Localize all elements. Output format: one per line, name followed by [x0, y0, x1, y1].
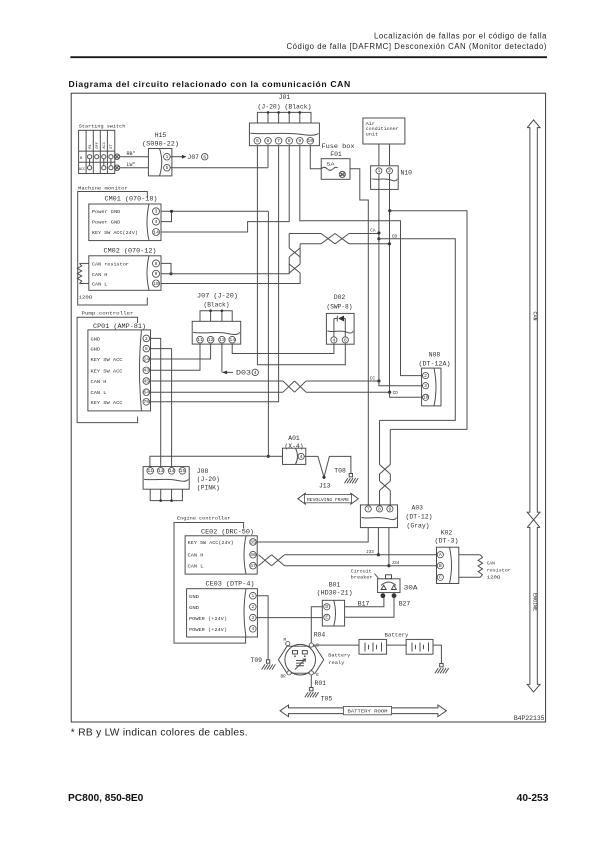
wire CM02 CAN L to twisted pair: [161, 273, 300, 284]
junction CM01 GND: [170, 210, 173, 213]
node CA: [377, 231, 380, 234]
svg-text:T09: T09: [250, 657, 262, 664]
svg-text:CAN L: CAN L: [92, 282, 108, 288]
svg-text:B4P22135: B4P22135: [514, 715, 545, 722]
svg-text:Localización de fallas por el: Localización de fallas por el código de …: [374, 32, 547, 41]
svg-text:B01: B01: [329, 582, 341, 589]
svg-text:Battery: Battery: [385, 632, 409, 638]
battery ground: [440, 664, 443, 667]
svg-text:14: 14: [229, 337, 235, 343]
node J33: [377, 553, 380, 556]
connector J08 (J-20)(PINK): [143, 467, 189, 490]
svg-text:CD: CD: [393, 391, 399, 396]
svg-text:CAN L: CAN L: [188, 564, 204, 570]
svg-text:Battery: Battery: [328, 654, 350, 659]
terminal B17: [381, 593, 386, 598]
svg-text:CP01 (AMP-81): CP01 (AMP-81): [93, 323, 146, 330]
svg-text:CE02 (DRC-50): CE02 (DRC-50): [201, 529, 254, 536]
svg-text:R1: R1: [89, 143, 93, 148]
svg-text:(X-4): (X-4): [285, 443, 304, 450]
wire B01 pin D to B17: [345, 596, 384, 607]
svg-text:10: 10: [423, 395, 429, 401]
svg-text:5: 5: [145, 346, 148, 352]
svg-text:Diagrama del circuito relacion: Diagrama del circuito relacionado con la…: [69, 79, 351, 89]
svg-text:(DT-3): (DT-3): [435, 538, 459, 545]
svg-text:B17: B17: [358, 600, 370, 607]
svg-text:7: 7: [367, 506, 370, 512]
node J34: [387, 564, 390, 567]
svg-text:REVOLVING FRAME: REVOLVING FRAME: [307, 498, 349, 503]
svg-text:CC: CC: [370, 377, 376, 382]
svg-text:43: 43: [143, 368, 149, 374]
battery relay R04: [278, 646, 323, 673]
svg-text:Starting switch: Starting switch: [79, 123, 126, 129]
svg-text:8: 8: [288, 138, 291, 144]
svg-text:RB*: RB*: [127, 151, 136, 157]
fuse terminal 20: [339, 171, 345, 177]
svg-text:PC800, 850-8E0: PC800, 850-8E0: [68, 793, 144, 804]
svg-text:N10: N10: [401, 170, 413, 177]
svg-text:5A: 5A: [327, 163, 336, 168]
wire AC unit to N10 pin2: [389, 144, 391, 166]
wire CE03 pin1 to ground T09: [256, 596, 268, 660]
wire H15 pin5 to J01 pin6: [170, 167, 268, 169]
svg-text:(J-20) (Black): (J-20) (Black): [258, 104, 312, 111]
wire CP01 pin5 GND to J08 pin14: [151, 349, 172, 468]
wire J34 to K02 pin B: [389, 565, 437, 567]
svg-text:24: 24: [143, 356, 149, 362]
wire battery relay E to ground T05: [310, 675, 312, 688]
svg-text:(HD30-21): (HD30-21): [317, 590, 353, 597]
svg-text:KEY SW ACC(24V): KEY SW ACC(24V): [188, 540, 234, 546]
svg-text:(PINK): (PINK): [197, 485, 220, 492]
diagram frame: [71, 93, 545, 722]
wire CAN L branch to engine side: [390, 211, 467, 430]
svg-text:B: B: [80, 157, 83, 161]
svg-text:POWER (+24V): POWER (+24V): [189, 616, 227, 622]
twisted pair pump controller: [283, 381, 295, 392]
svg-text:35: 35: [250, 539, 256, 545]
svg-text:CAN: CAN: [532, 311, 538, 320]
svg-text:GND: GND: [91, 347, 101, 353]
wire monitor GND trunk down to A01: [267, 211, 269, 456]
svg-text:5: 5: [165, 165, 168, 171]
starting switch contact bars: [89, 159, 91, 166]
wire LW to H15 pin5: [120, 167, 149, 169]
svg-text:K02: K02: [441, 530, 453, 537]
svg-text:R01: R01: [315, 680, 327, 687]
svg-text:64: 64: [143, 390, 149, 396]
CAN resistor 120ohm of monitor: [80, 262, 89, 264]
svg-text:M: M: [284, 638, 287, 643]
wire CP01 CAN L to node CD: [151, 391, 284, 393]
svg-text:40-253: 40-253: [517, 793, 549, 804]
svg-text:A01: A01: [288, 435, 300, 442]
J07 harness bracket: [200, 311, 232, 322]
wire A03 pin9 CAN L to node J34: [388, 528, 390, 566]
fuse box F01: [321, 159, 350, 180]
svg-text:GND: GND: [189, 605, 199, 611]
CAN arrow: [527, 120, 540, 528]
battery room arrow: [280, 705, 446, 717]
battery 2: [406, 639, 433, 654]
svg-text:2: 2: [388, 168, 391, 174]
svg-text:LW*: LW*: [127, 162, 136, 168]
wire fuse output to ACC trunk: [350, 169, 368, 505]
svg-text:J33: J33: [366, 550, 374, 555]
wire GND junction to A01: [268, 455, 282, 457]
svg-text:6: 6: [344, 337, 347, 343]
svg-text:47: 47: [250, 563, 256, 569]
wire CM01 pin14 to J01 pin8: [161, 146, 289, 232]
svg-text:CA: CA: [370, 228, 376, 233]
svg-text:realy: realy: [328, 661, 344, 666]
svg-text:Machine monitor: Machine monitor: [78, 186, 128, 192]
svg-text:(Gray): (Gray): [407, 523, 430, 530]
svg-text:H15: H15: [155, 132, 167, 139]
svg-text:ACC: ACC: [103, 141, 107, 149]
svg-text:POWER (+24V): POWER (+24V): [189, 627, 227, 633]
svg-text:J07 (J-20): J07 (J-20): [197, 292, 238, 299]
svg-text:GND: GND: [189, 594, 199, 600]
svg-text:BR: BR: [281, 675, 287, 680]
svg-text:OFF: OFF: [96, 141, 100, 149]
svg-text:9: 9: [155, 271, 158, 277]
svg-text:ACC: ACC: [79, 168, 86, 172]
J08 harness bracket: [150, 489, 182, 500]
wire CM01 GND out: [161, 210, 268, 212]
svg-text:BATTERY ROOM: BATTERY ROOM: [348, 710, 388, 715]
wire CP01 pin78 to J01 pin7: [151, 146, 279, 402]
terminal B27: [392, 593, 397, 598]
svg-text:9: 9: [298, 138, 301, 144]
twisted pair to A03: [379, 420, 381, 464]
J01 harness bracket: [257, 112, 311, 123]
wire CM01 pin4 to pin3 junction: [161, 211, 172, 221]
svg-text:3: 3: [155, 209, 158, 215]
svg-text:11: 11: [147, 468, 153, 474]
ground T05: [310, 688, 313, 691]
svg-text:D02: D02: [334, 294, 346, 301]
svg-text:Power GND: Power GND: [92, 219, 121, 225]
svg-text:ENGINE: ENGINE: [532, 593, 538, 611]
svg-text:4: 4: [251, 626, 254, 632]
wire CP01 pin2 GND to J08 pin13: [151, 338, 161, 467]
ENGINE arrow: [527, 527, 540, 692]
svg-text:Fuse box: Fuse box: [322, 143, 355, 150]
svg-text:* RB y LW indican colores de c: * RB y LW indican colores de cables.: [71, 728, 248, 739]
svg-text:D: D: [325, 604, 328, 610]
svg-text:B27: B27: [399, 600, 411, 607]
svg-text:6: 6: [267, 138, 270, 144]
starting switch contacts row ACC: [88, 166, 92, 170]
wire J33 to K02 pin A: [378, 554, 437, 556]
svg-text:1: 1: [377, 168, 380, 174]
starting switch contacts row B: [88, 155, 92, 159]
svg-text:CAN H: CAN H: [92, 272, 108, 278]
svg-text:11: 11: [197, 337, 203, 343]
svg-text:13: 13: [219, 337, 225, 343]
svg-text:CAN H: CAN H: [188, 553, 204, 559]
svg-text:A: A: [439, 552, 442, 558]
svg-text:10: 10: [307, 138, 313, 144]
svg-text:ST: ST: [110, 143, 114, 148]
svg-text:14: 14: [153, 229, 159, 235]
CAN resistor 120ohm terminating: [459, 554, 481, 556]
node CC: [377, 379, 380, 382]
svg-text:GND: GND: [91, 336, 101, 342]
wire N10 pin1 CAN H trunk down to CC: [378, 174, 380, 381]
svg-text:(SWP-8): (SWP-8): [327, 304, 353, 311]
svg-text:12: 12: [208, 337, 214, 343]
wire N10 pin2 CAN L trunk down to CD: [389, 174, 391, 392]
node CB: [388, 242, 391, 245]
svg-text:120Ω: 120Ω: [487, 575, 501, 580]
diode symbol: [334, 318, 337, 320]
svg-text:KEY SW ACC: KEY SW ACC: [91, 368, 123, 374]
junction CAN L branch: [388, 209, 391, 212]
svg-text:CAN H: CAN H: [91, 379, 107, 385]
svg-text:C: C: [439, 575, 442, 581]
wire J07 pin13 to D03 reference: [221, 344, 223, 372]
svg-text:Circuit: Circuit: [351, 569, 372, 574]
svg-text:Engine controller: Engine controller: [177, 516, 231, 522]
svg-text:13: 13: [158, 468, 164, 474]
svg-text:B: B: [316, 643, 319, 648]
air conditioner unit: [363, 118, 405, 144]
svg-text:T05: T05: [321, 695, 333, 702]
svg-text:J01: J01: [279, 94, 291, 101]
svg-text:4: 4: [155, 219, 158, 225]
header rule: [70, 56, 547, 58]
wire B01 pin D to battery relay B: [311, 607, 322, 645]
wire CP01 CAN H to node CC: [151, 380, 284, 382]
jump reference arrow to J07 pin6: [170, 156, 183, 158]
svg-text:conditioner: conditioner: [366, 127, 399, 132]
svg-text:2: 2: [251, 604, 254, 610]
svg-text:(Black): (Black): [204, 301, 230, 308]
svg-text:CE03 (DTP-4): CE03 (DTP-4): [206, 581, 255, 588]
svg-text:6: 6: [203, 154, 206, 160]
wire relay B to battery: [313, 644, 359, 646]
svg-text:(DT-12): (DT-12): [406, 514, 433, 521]
svg-text:CAN: CAN: [487, 561, 495, 566]
wire CE02 CAN L to J34: [285, 565, 389, 567]
wire GND to J08 pin11: [150, 456, 268, 467]
svg-text:3: 3: [251, 615, 254, 621]
svg-text:8: 8: [378, 506, 381, 512]
svg-text:7: 7: [277, 138, 280, 144]
terminal B output: [114, 154, 119, 159]
svg-text:8: 8: [155, 261, 158, 267]
svg-text:CM02 (070-12): CM02 (070-12): [104, 247, 157, 254]
svg-text:T08: T08: [334, 468, 346, 475]
svg-text:15: 15: [180, 468, 186, 474]
wire CP01 pin43 to J07 pin11: [151, 344, 201, 370]
svg-text:45: 45: [143, 378, 149, 384]
svg-text:CM01 (070-18): CM01 (070-18): [105, 196, 158, 203]
wire A01 pin4 to splice J13 and ground T08: [304, 456, 351, 477]
svg-text:Código de falla [DAFRMC] Desco: Código de falla [DAFRMC] Desconexión CAN…: [286, 42, 547, 51]
connector N10: [371, 166, 399, 190]
wire J07 pin14 to D02 pin4: [232, 344, 334, 354]
wire A03 pin7 ACC to CE02 pin35: [257, 528, 368, 542]
svg-text:J07: J07: [188, 154, 200, 161]
svg-text:2: 2: [424, 373, 427, 379]
svg-text:1: 1: [165, 154, 168, 160]
svg-text:46: 46: [250, 552, 256, 558]
svg-text:1: 1: [251, 593, 254, 599]
svg-text:J13: J13: [319, 483, 331, 490]
svg-text:R04: R04: [314, 631, 326, 638]
svg-text:Pump controller: Pump controller: [82, 311, 134, 317]
junction CAN H branch: [377, 237, 380, 240]
wire AC unit to N10 pin1: [378, 144, 380, 166]
svg-text:10: 10: [153, 281, 159, 287]
svg-text:5: 5: [256, 138, 259, 144]
wire CAN H branch to engine side: [379, 239, 455, 421]
svg-text:E: E: [325, 615, 328, 621]
wire node CC to N08 pin3: [379, 381, 423, 386]
svg-text:9: 9: [388, 506, 391, 512]
node J13: [322, 476, 325, 479]
wire J01 pin10 to fuse box: [310, 146, 321, 169]
svg-text:KEY SW ACC: KEY SW ACC: [91, 400, 123, 406]
circuit breaker 30A: [386, 575, 392, 579]
svg-text:Power GND: Power GND: [92, 209, 121, 215]
svg-text:F01: F01: [330, 151, 342, 158]
svg-text:KEY SW ACC: KEY SW ACC: [91, 357, 123, 363]
starting switch S01 table: [79, 130, 115, 173]
wire CP01 pin24 to J07 pin12: [151, 344, 211, 359]
svg-text:14: 14: [169, 468, 175, 474]
wire CAN L horizontal to node CB: [300, 243, 321, 245]
wire CM02 CAN H to twisted pair: [161, 257, 289, 274]
wire RB to H15 pin1: [120, 156, 149, 158]
svg-text:4: 4: [300, 454, 303, 460]
svg-text:4: 4: [332, 337, 335, 343]
svg-text:breaker: breaker: [351, 576, 373, 581]
svg-text:unit: unit: [366, 133, 379, 138]
wire CAN H horizontal to node CA: [289, 233, 321, 235]
wire B01 pin E to B27: [345, 596, 394, 618]
jump reference arrow D03 pin4: [222, 371, 227, 375]
svg-text:2: 2: [145, 336, 148, 342]
wire J01 pin5 to D02 pin6: [257, 146, 345, 365]
svg-text:120Ω: 120Ω: [79, 294, 93, 300]
svg-text:(S090-22): (S090-22): [142, 141, 179, 148]
svg-text:30A: 30A: [404, 585, 418, 592]
wire CE03 pin3 to B01 pin E: [256, 617, 322, 619]
svg-text:(DT-12A): (DT-12A): [419, 360, 451, 367]
svg-text:Air: Air: [366, 122, 376, 127]
wire battery to ground: [433, 645, 441, 663]
twisted pair horizontal monitor: [321, 234, 335, 244]
wire CM02 pin8 to pin9 junction: [161, 263, 171, 273]
node CD: [388, 391, 391, 394]
svg-text:N08: N08: [429, 351, 441, 358]
svg-text:B: B: [439, 563, 442, 569]
wire A03 pin8 CAN H to node J33: [377, 528, 379, 555]
svg-text:D03: D03: [236, 370, 251, 377]
junction GND at A01: [267, 455, 270, 458]
svg-text:3: 3: [424, 383, 427, 389]
fuse element 5A: [321, 167, 338, 170]
svg-text:4: 4: [254, 370, 257, 376]
twisted pair vertical monitor: [289, 248, 300, 257]
junction CM02 CAN H: [169, 272, 172, 275]
svg-text:(J-20): (J-20): [197, 476, 220, 483]
wire battery link: [387, 644, 407, 646]
svg-text:CAN resistor: CAN resistor: [92, 261, 129, 267]
svg-text:A03: A03: [412, 505, 424, 512]
revolving frame arrow: [298, 493, 359, 504]
svg-text:resistor: resistor: [487, 568, 511, 573]
svg-text:E: E: [316, 673, 319, 678]
wire CE02 CAN H twisted to J33: [259, 555, 272, 566]
svg-text:KEY SW ACC(24V): KEY SW ACC(24V): [92, 230, 138, 236]
wire node CD to N08 pin10: [390, 392, 423, 397]
svg-text:J08: J08: [197, 468, 209, 475]
svg-text:CAN L: CAN L: [91, 390, 107, 396]
svg-text:78: 78: [143, 399, 149, 405]
wire J01 pin9 to N08 pin2: [300, 146, 426, 376]
terminal ACC output: [114, 165, 119, 170]
